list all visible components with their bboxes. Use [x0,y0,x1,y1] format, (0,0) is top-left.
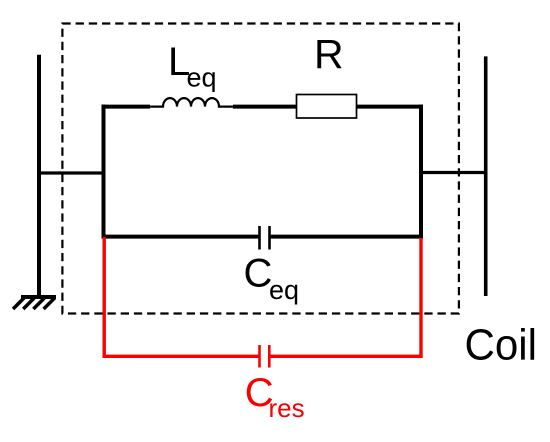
svg-text:Coil: Coil [465,321,538,370]
svg-text:R: R [314,31,344,77]
svg-text:eq: eq [269,275,299,305]
svg-text:res: res [269,393,305,423]
svg-text:eq: eq [187,62,217,92]
